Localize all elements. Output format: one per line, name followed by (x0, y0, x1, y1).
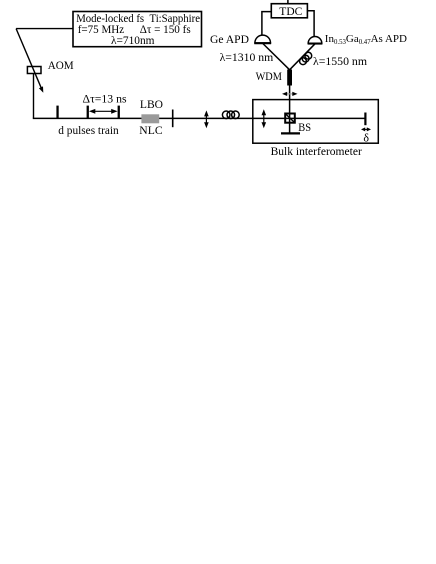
wire InGaAs APD to TDC (307, 11, 314, 37)
pulse tick 1 (56, 106, 58, 119)
svg-text:WDM: WDM (256, 71, 282, 83)
polarization vertical double arrow 1 (205, 114, 207, 126)
AOM box (27, 67, 41, 74)
LBO nonlinear crystal (141, 114, 159, 123)
svg-text:Ge APD: Ge APD (210, 34, 249, 46)
svg-text:δ: δ (363, 131, 369, 145)
svg-text:LBO: LBO (140, 99, 163, 111)
svg-text:TDC: TDC (279, 4, 302, 18)
wire AOM down to beam line (33, 74, 35, 119)
beam splitter BS (285, 114, 295, 123)
main beam line (33, 117, 366, 119)
pulse tick 3 (118, 106, 120, 119)
fiber coil on beam line (222, 111, 230, 119)
fiber to Ge APD (263, 43, 290, 69)
pulse spacing arrow (91, 110, 116, 112)
TDC box (271, 4, 307, 18)
svg-text:AOM: AOM (48, 60, 74, 72)
polarizer tick after LBO (172, 110, 174, 128)
svg-text:λ=710nm: λ=710nm (111, 35, 155, 47)
wire diagonal beam through AOM (16, 29, 41, 89)
InGaAs APD detector dome (308, 37, 322, 44)
BS diagonal (285, 114, 294, 123)
svg-text:Δτ=13 ns: Δτ=13 ns (83, 93, 127, 105)
svg-text:BS: BS (298, 120, 311, 134)
filter bar (fiber to WDM) (287, 70, 292, 86)
movable mirror right (364, 113, 366, 126)
svg-text:λ=1550 nm: λ=1550 nm (313, 56, 367, 68)
wire Ge APD to TDC (262, 12, 271, 36)
pulse tick 2 (87, 106, 89, 119)
svg-text:λ=1310 nm: λ=1310 nm (220, 52, 274, 64)
bulk interferometer box (253, 100, 378, 144)
Ge APD detector dome (255, 35, 271, 43)
svg-text:Bulk interferometer: Bulk interferometer (271, 146, 362, 158)
fiber coil on right arm (300, 58, 307, 65)
svg-text:NLC: NLC (139, 125, 162, 137)
wire laser output horizontal (16, 28, 73, 30)
delta displacement arrow (364, 128, 369, 130)
laser source box U1 (73, 12, 202, 47)
fiber to InGaAs APD (290, 44, 315, 70)
TDC stub wire (287, 0, 289, 4)
svg-text:d pulses train: d pulses train (58, 125, 119, 137)
vertical beam through BS (289, 85, 291, 133)
mirror below BS (281, 132, 300, 134)
polarization vertical double arrow 2 (263, 113, 265, 125)
arrowhead of deflected beam (39, 86, 43, 92)
scanning arrow above box (286, 93, 295, 95)
